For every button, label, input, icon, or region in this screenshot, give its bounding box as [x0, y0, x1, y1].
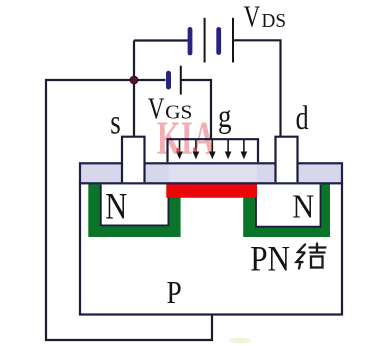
wire node A to battery VGS negative plate	[134, 79, 166, 81]
svg-text:PN: PN	[250, 239, 290, 279]
drain N+ diffusion well (green)	[243, 184, 330, 237]
gate oxide tint	[169, 165, 257, 182]
svg-text:V: V	[148, 90, 165, 125]
source N+ diffusion well (green)	[88, 184, 180, 237]
svg-text:N: N	[292, 189, 314, 226]
wire battery VDS positive plate to drain terminal d	[233, 40, 281, 136]
svg-text:g: g	[218, 99, 232, 135]
node A junction dot	[130, 76, 138, 84]
induced channel (red)	[166, 184, 257, 198]
battery VDS cell 2 positive plate	[232, 18, 234, 63]
faint bottom watermark remnant	[229, 338, 251, 344]
wire node A to battery VDS negative plate	[134, 39, 188, 41]
svg-text:s: s	[110, 103, 121, 142]
label PN junction (PN jie)	[250, 239, 325, 279]
drain contact electrode	[276, 137, 298, 183]
svg-text:N: N	[105, 186, 127, 227]
battery VDS cell 1 negative plate	[188, 27, 193, 55]
battery VDS cell 2 negative plate	[216, 27, 221, 55]
svg-text:d: d	[296, 100, 309, 137]
watermark bleed on arrowheads	[177, 148, 198, 154]
svg-text:V: V	[244, 0, 261, 34]
source contact electrode	[122, 137, 145, 183]
svg-text:P: P	[167, 275, 182, 310]
wire source terminal s vertical through node A	[133, 41, 135, 137]
battery VGS positive plate	[180, 66, 182, 95]
gate electrode plate	[168, 139, 259, 162]
oxide insulator strip (lavender)	[80, 163, 342, 183]
P substrate body	[80, 183, 342, 315]
battery VGS negative plate	[166, 71, 171, 90]
drain N+ region (white)	[256, 184, 321, 227]
label VDS	[244, 0, 286, 34]
wire node A loop to P substrate contact	[46, 80, 212, 340]
label VGS	[148, 90, 193, 125]
svg-text:DS: DS	[262, 11, 287, 32]
wire battery VGS positive plate to gate terminal g	[181, 80, 211, 139]
gate field arrows	[176, 140, 247, 160]
source N+ region (white)	[101, 184, 169, 225]
battery VDS cell 1 positive plate	[204, 18, 206, 63]
svg-text:GS: GS	[165, 103, 192, 124]
